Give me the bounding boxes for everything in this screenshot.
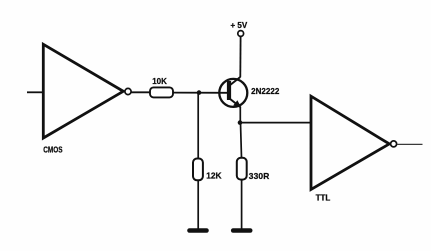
wire: emitter down to junction node B (239, 107, 241, 125)
svg-text:2N2222: 2N2222 (251, 87, 280, 96)
node A junction dot (base / 12K) (197, 90, 202, 95)
resistor R3 330R (237, 158, 247, 180)
wire: input to CMOS gate (27, 91, 43, 93)
wire: resistor R2 to ground (197, 180, 199, 229)
wire: TTL output (397, 143, 423, 145)
svg-text:330R: 330R (249, 171, 270, 181)
body circle (219, 79, 247, 107)
svg-text:10K: 10K (152, 77, 167, 86)
resistor R1 10K (150, 87, 173, 97)
wire: resistor R1 to transistor base (173, 92, 228, 94)
ground (below R2) (190, 228, 207, 233)
inverter gate U2 (TTL) triangle (311, 96, 389, 189)
wire: junction down to resistor R2 (197, 93, 199, 159)
emitter arrowhead (233, 100, 241, 107)
wire: junction to TTL gate input (240, 122, 311, 124)
resistor R2 12K (193, 159, 203, 181)
wire: collector up to +5V (239, 36, 241, 77)
ground (below R3) (233, 228, 250, 233)
base bar (227, 81, 231, 100)
node: +5V supply terminal (238, 31, 244, 37)
node B junction dot (emitter / 330R / TTL input) (238, 120, 243, 125)
wire: junction node B down to resistor R3 (241, 123, 242, 158)
node: CMOS output inversion bubble (125, 88, 131, 94)
emitter stroke (230, 99, 241, 108)
wire: bubble to resistor R1 (131, 91, 150, 93)
wire: resistor R3 to ground (241, 180, 243, 229)
collector stroke (230, 77, 241, 86)
svg-text:TTL: TTL (316, 193, 331, 202)
svg-text:+ 5V: + 5V (231, 21, 248, 30)
svg-text:CMOS: CMOS (43, 145, 62, 155)
transistor Q1 2N2222 (219, 77, 247, 108)
node: TTL output inversion bubble (391, 141, 397, 147)
inverter gate U1 (CMOS) triangle (43, 44, 123, 138)
svg-text:12K: 12K (206, 171, 221, 181)
